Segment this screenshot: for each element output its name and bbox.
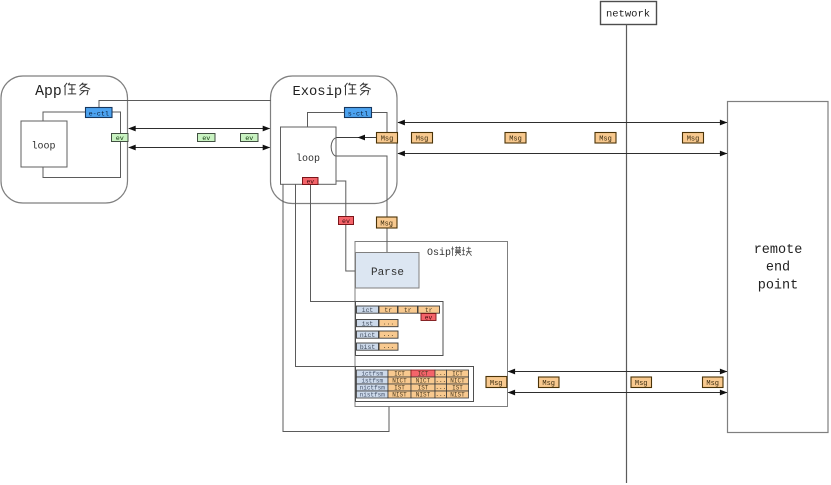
svg-text:IST: IST: [394, 384, 405, 391]
wire: App inner loop rectangle: [43, 112, 121, 178]
cell ict: [357, 306, 379, 313]
svg-text:ev: ev: [202, 135, 210, 143]
svg-text:end: end: [766, 261, 790, 276]
cell nict: [357, 331, 379, 338]
svg-text:...: ...: [435, 370, 446, 377]
svg-text:e-ctl: e-ctl: [89, 110, 109, 118]
svg-text:NICT: NICT: [392, 377, 407, 384]
svg-text:bist: bist: [360, 344, 376, 351]
CJK char 模: [451, 247, 461, 256]
cell ist: [357, 320, 379, 327]
ev label box mid-right: [241, 134, 259, 142]
arrow line: Exosip-remote upper: [398, 122, 727, 124]
Msg box inside Osip: [486, 377, 507, 388]
svg-text:Exosip: Exosip: [292, 84, 342, 100]
cell tr1: [379, 306, 398, 313]
wire: Msg to loop (with arrow): [336, 137, 377, 139]
svg-text:tr: tr: [384, 307, 392, 314]
svg-text:NIST: NIST: [416, 391, 431, 398]
wire: Msg down to Parse top: [386, 228, 388, 253]
App loop box: [21, 121, 67, 167]
wire: s-ctl left to loop top: [308, 113, 346, 128]
svg-text:...: ...: [383, 331, 395, 338]
svg-text:tr: tr: [425, 307, 433, 314]
Osip module box (Osip模块): [355, 242, 508, 407]
svg-text:Msg: Msg: [490, 380, 503, 388]
svg-text:ev: ev: [342, 218, 350, 225]
fsm table wrapper: [356, 367, 474, 402]
svg-text:ictfsm: ictfsm: [361, 370, 383, 377]
Msg label box top row 3: [595, 133, 616, 144]
wire: e-ctl to Exosip box: [99, 101, 271, 108]
network box: [601, 2, 657, 25]
remote end point box: [728, 102, 829, 433]
svg-text:ICT: ICT: [418, 370, 429, 377]
svg-text:ev: ev: [306, 178, 314, 185]
svg-text:s-ctl: s-ctl: [348, 110, 368, 118]
svg-text:Msg: Msg: [542, 380, 555, 388]
Msg box on Exosip edge: [377, 133, 398, 144]
arrowhead: Msg to loop: [358, 135, 366, 141]
CJK char 务 (App): [79, 83, 90, 96]
svg-text:ev: ev: [245, 135, 253, 143]
svg-text:Msg: Msg: [599, 136, 612, 144]
svg-text:istfsm: istfsm: [361, 377, 383, 384]
CJK char 任 (App): [64, 83, 76, 95]
ev cell under tr3: [421, 314, 436, 321]
svg-text:...: ...: [435, 384, 446, 391]
fsm row ictfsm: [357, 370, 389, 377]
svg-text:ev: ev: [425, 314, 433, 321]
svg-text:ict: ict: [362, 307, 374, 314]
fsm row nistfsm: [357, 391, 389, 398]
svg-text:...: ...: [435, 377, 446, 384]
svg-text:nistfsm: nistfsm: [360, 391, 386, 398]
ev box above Osip: [339, 217, 354, 225]
cell bist: [357, 343, 379, 350]
svg-text:NIST: NIST: [450, 391, 465, 398]
svg-text:Msg: Msg: [706, 380, 719, 388]
svg-text:network: network: [606, 9, 650, 21]
cell ...: [379, 343, 398, 350]
arc notch on Exosip loop right edge: [331, 138, 336, 156]
svg-text:ist: ist: [362, 320, 374, 327]
cell ...: [379, 331, 398, 338]
cell ...: [379, 320, 398, 327]
svg-text:Msg: Msg: [687, 136, 700, 144]
svg-text:nict: nict: [360, 332, 376, 339]
svg-text:Msg: Msg: [509, 136, 522, 144]
wire: s-ctl right down to Msg: [372, 113, 388, 134]
svg-text:ev: ev: [116, 135, 124, 143]
cell tr3: [418, 306, 440, 313]
Msg label box bottom row 2: [631, 377, 652, 388]
wire: loop bottom to fsm table wrapper: [296, 185, 356, 367]
svg-text:Osip: Osip: [427, 247, 451, 259]
svg-text:Parse: Parse: [371, 267, 404, 279]
ev box on Exosip loop bottom: [303, 178, 319, 185]
svg-text:Msg: Msg: [416, 136, 429, 144]
svg-text:...: ...: [383, 343, 395, 350]
wire: network vertical line: [626, 25, 628, 484]
svg-text:Msg: Msg: [380, 220, 393, 228]
wire: loop bottom to transaction table wrapper: [311, 185, 356, 302]
ev label box mid-left: [198, 134, 216, 142]
wire: ev box down to Parse left: [346, 225, 356, 272]
Msg label box bottom row 1: [539, 377, 560, 388]
arrow line: App-Exosip upper: [129, 128, 270, 130]
Parse box: [356, 253, 420, 289]
svg-text:remote: remote: [754, 243, 803, 258]
svg-text:Msg: Msg: [635, 380, 648, 388]
wire: loop bottom to Osip bottom (long U): [283, 185, 389, 432]
cell tr2: [398, 306, 418, 313]
s-ctl box: [345, 108, 372, 118]
CJK char 块: [462, 247, 472, 256]
svg-text:point: point: [758, 278, 799, 293]
arrow line: Osip-remote upper: [508, 371, 727, 373]
App task box (App任务): [1, 76, 128, 203]
svg-text:...: ...: [435, 391, 446, 398]
arrow line: Exosip-remote lower: [398, 153, 727, 155]
svg-text:nictfsm: nictfsm: [360, 384, 386, 391]
ev box on App edge: [112, 134, 129, 142]
wire: loop ev to ev box: [318, 181, 346, 217]
svg-text:App: App: [35, 84, 62, 100]
Msg label box top row 2: [505, 133, 526, 144]
Msg label box top row 1: [412, 133, 433, 144]
arrow line: Osip-remote lower: [508, 392, 727, 394]
svg-text:Msg: Msg: [381, 136, 394, 144]
svg-text:ICT: ICT: [452, 370, 463, 377]
svg-text:tr: tr: [404, 307, 412, 314]
wire: loop right out down to Msg: [336, 156, 387, 217]
transaction table wrapper: [356, 302, 444, 356]
fsm row istfsm: [357, 377, 389, 384]
Msg label box bottom row 3: [703, 377, 724, 388]
CJK char 务 (Exosip): [360, 83, 371, 96]
Msg box between Exosip and Osip: [377, 217, 398, 228]
svg-text:IST: IST: [418, 384, 429, 391]
Exosip task box (Exosip任务): [271, 76, 398, 204]
Exosip loop box: [281, 127, 337, 184]
svg-text:NICT: NICT: [416, 377, 431, 384]
fsm row nictfsm: [357, 384, 389, 391]
CJK char 任 (Exosip): [345, 83, 357, 95]
e-ctl box: [86, 108, 113, 118]
svg-text:...: ...: [383, 320, 395, 327]
Msg label box top row 4: [683, 133, 704, 144]
svg-text:loop: loop: [296, 153, 320, 165]
svg-text:ICT: ICT: [394, 370, 405, 377]
svg-text:loop: loop: [31, 141, 55, 153]
arrow line: App-Exosip lower: [129, 147, 270, 149]
svg-text:IST: IST: [452, 384, 463, 391]
svg-text:NICT: NICT: [450, 377, 465, 384]
svg-text:NIST: NIST: [392, 391, 407, 398]
